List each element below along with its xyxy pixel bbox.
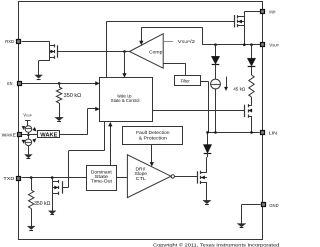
svg-text:350 kΩ: 350 kΩ: [34, 201, 51, 207]
svg-text:LIN: LIN: [269, 130, 277, 135]
svg-text:350 kΩ: 350 kΩ: [64, 93, 82, 99]
svg-text:Comp: Comp: [149, 49, 163, 55]
svg-text:INH: INH: [269, 9, 275, 14]
svg-text:State & Control: State & Control: [111, 98, 140, 104]
svg-text:VSUP: VSUP: [269, 43, 279, 48]
svg-text:Time-Out: Time-Out: [91, 179, 113, 185]
svg-text:Copyright © 2011, Texas Instru: Copyright © 2011, Texas Instruments Inco…: [153, 241, 280, 247]
svg-text:WAKE: WAKE: [2, 133, 16, 138]
svg-text:Filter: Filter: [181, 78, 191, 83]
svg-text:RXD: RXD: [5, 39, 14, 44]
svg-text:45 kΩ: 45 kΩ: [233, 87, 246, 93]
svg-text:CTL: CTL: [136, 176, 147, 181]
svg-text:WAKE: WAKE: [40, 132, 58, 138]
svg-text:TXD: TXD: [3, 176, 15, 181]
svg-text:& Protection: & Protection: [139, 136, 168, 142]
svg-text:VSUP: VSUP: [23, 112, 31, 117]
svg-text:GND: GND: [269, 203, 279, 208]
svg-text:State: State: [95, 174, 109, 180]
svg-text:Dominant: Dominant: [91, 169, 112, 175]
svg-text:Fault Detection: Fault Detection: [136, 130, 170, 136]
svg-text:EN: EN: [7, 81, 12, 86]
svg-text:VSUP/2: VSUP/2: [178, 39, 196, 45]
